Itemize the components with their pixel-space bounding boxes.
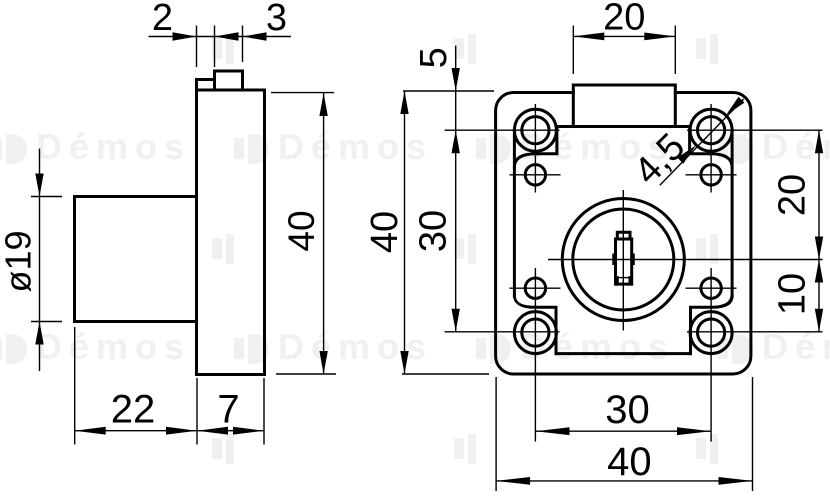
- svg-text:40: 40: [364, 211, 406, 253]
- svg-text:ø19: ø19: [0, 230, 39, 292]
- svg-text:30: 30: [412, 210, 454, 252]
- svg-text:30: 30: [605, 388, 650, 432]
- svg-text:3: 3: [266, 0, 287, 39]
- svg-text:7: 7: [217, 388, 239, 432]
- svg-text:40: 40: [607, 440, 652, 484]
- svg-text:20: 20: [603, 0, 645, 38]
- svg-text:20: 20: [771, 174, 813, 216]
- svg-text:22: 22: [111, 388, 156, 432]
- svg-text:2: 2: [152, 0, 173, 39]
- svg-text:10: 10: [771, 273, 813, 315]
- svg-text:40: 40: [281, 210, 322, 251]
- svg-text:5: 5: [413, 47, 455, 68]
